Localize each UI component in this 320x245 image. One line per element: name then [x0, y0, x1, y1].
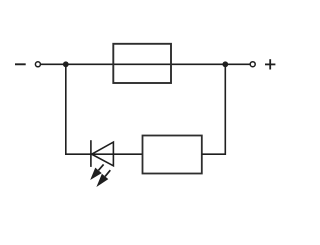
terminal circle left (open): [35, 62, 40, 67]
junction left node: [63, 61, 69, 67]
LED D1 light arrow 1: [90, 164, 103, 180]
LED D1 light arrow 2: [96, 170, 110, 187]
wire left drop to lower branch: [66, 64, 143, 154]
wire resistor to right riser up to junction: [202, 64, 225, 154]
resistor R1 (rectangle): [143, 136, 202, 174]
wire main horizontal: [41, 63, 250, 65]
LED D1 triangle: [92, 142, 114, 166]
junction right node: [222, 61, 228, 67]
terminal circle right (open): [250, 62, 255, 67]
label minus (-) at left terminal: [15, 63, 26, 65]
fuse F1 (rectangle, wire passes through): [113, 44, 171, 83]
label plus (+) at right terminal: [265, 59, 275, 69]
LED D1 cathode bar: [90, 140, 92, 167]
